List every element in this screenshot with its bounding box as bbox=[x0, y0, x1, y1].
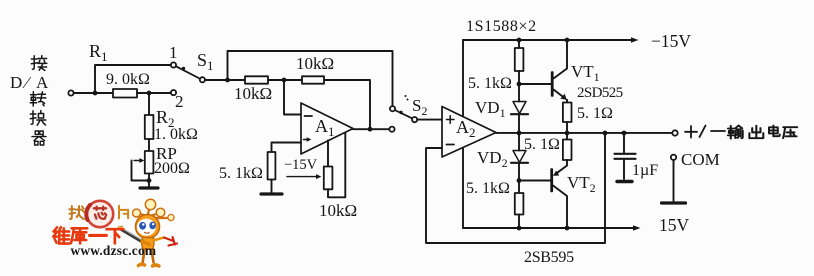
wire A2 top supply bbox=[462, 40, 464, 116]
wire COM to ground bbox=[673, 160, 675, 202]
svg-text:A: A bbox=[36, 73, 49, 92]
node: rail/5.1k lower bbox=[517, 226, 522, 231]
watermark seal 找芯片 bbox=[69, 201, 128, 227]
node: diode chain/output bbox=[517, 131, 522, 136]
svg-text:S2: S2 bbox=[412, 96, 427, 118]
op-amp A1 bbox=[301, 103, 353, 154]
label: D/A converter connection (接 D/A 转换器) bbox=[10, 56, 49, 145]
svg-text:1µF: 1µF bbox=[632, 162, 658, 179]
svg-text:5. 1kΩ: 5. 1kΩ bbox=[219, 165, 263, 182]
node: emitters/output bbox=[565, 131, 570, 136]
resistor 5.1kΩ (lower bias) bbox=[515, 193, 524, 228]
node: A1 inverting input bbox=[282, 78, 287, 83]
COM terminal bbox=[671, 155, 676, 160]
wire S2 pole to A2 bbox=[417, 119, 442, 121]
svg-text:VT2: VT2 bbox=[567, 173, 596, 195]
svg-text:10kΩ: 10kΩ bbox=[319, 201, 357, 220]
input terminal bbox=[68, 90, 73, 95]
svg-text:5. 1Ω: 5. 1Ω bbox=[577, 105, 613, 122]
wire: bypass up to contact 1 bbox=[95, 65, 171, 93]
node: rail/VT2 collector bbox=[565, 226, 570, 231]
output terminal bbox=[672, 130, 677, 135]
resistor R1 9.0k bbox=[113, 89, 149, 98]
node: rail/5.1k bbox=[517, 38, 522, 43]
svg-text:D: D bbox=[10, 73, 22, 92]
wire output line bbox=[496, 132, 672, 134]
svg-text:15V: 15V bbox=[659, 215, 690, 235]
svg-text:−15V: −15V bbox=[651, 31, 691, 51]
switch S1 contact 2 bbox=[171, 90, 176, 95]
node: R2 junction bbox=[147, 91, 152, 96]
watermark text 维库一下 bbox=[53, 227, 123, 244]
ground (COM) bbox=[662, 201, 686, 204]
switch S2 top contact bbox=[390, 106, 395, 111]
svg-text:5. 1kΩ: 5. 1kΩ bbox=[468, 75, 512, 92]
capacitor 1µF bbox=[615, 133, 636, 179]
svg-text:5. 1kΩ: 5. 1kΩ bbox=[466, 180, 510, 197]
wire input to node bbox=[74, 92, 113, 94]
transistor VT2 2SB595 bbox=[552, 160, 567, 228]
switch S2 lower contact bbox=[389, 127, 394, 132]
top rail -15V bbox=[463, 37, 639, 43]
wire A1 output bbox=[353, 128, 389, 130]
node: VT1 base junction bbox=[517, 82, 522, 87]
svg-text:VD1: VD1 bbox=[475, 98, 506, 120]
ground (RP) bbox=[140, 186, 158, 189]
wire to VT2 base bbox=[519, 180, 552, 182]
node: A1 output junction bbox=[368, 127, 373, 132]
svg-text:2: 2 bbox=[175, 92, 184, 111]
bottom rail 15V bbox=[463, 225, 641, 231]
ground (cap) bbox=[617, 180, 632, 183]
offset wiper arrow from -15V bbox=[287, 174, 321, 179]
diode VD2 bbox=[511, 133, 528, 193]
resistor 5.1kΩ (upper bias) bbox=[515, 40, 524, 102]
diode VD1 bbox=[511, 102, 528, 134]
resistor R2 1.0k bbox=[145, 93, 154, 151]
node: feedback at output bbox=[603, 131, 608, 136]
node: VT2 base junction bbox=[517, 178, 522, 183]
svg-text:5. 1Ω: 5. 1Ω bbox=[524, 136, 560, 153]
svg-text:1S1588×2: 1S1588×2 bbox=[466, 18, 537, 35]
svg-text:1. 0kΩ: 1. 0kΩ bbox=[154, 126, 198, 143]
label +/- output voltage (+∕-输出电压) bbox=[685, 126, 797, 139]
resistor 5.1kΩ (A1 +) bbox=[268, 152, 276, 193]
node: input junction bbox=[93, 91, 98, 96]
node: S1 pole junction bbox=[225, 78, 230, 83]
svg-text:VD2: VD2 bbox=[477, 148, 508, 170]
wire S1 pole to 10k bbox=[205, 79, 245, 81]
svg-text:COM: COM bbox=[681, 150, 720, 169]
node: cap/output bbox=[622, 131, 627, 136]
wire A2 bottom supply bbox=[462, 148, 464, 228]
switch S1 contact 1 bbox=[171, 62, 176, 67]
resistor 10kΩ feedback bbox=[302, 76, 370, 129]
resistor 10kΩ input bbox=[245, 76, 302, 83]
svg-text:200Ω: 200Ω bbox=[154, 160, 190, 177]
svg-text:9. 0kΩ: 9. 0kΩ bbox=[106, 71, 150, 88]
resistor 5.1Ω (VT2 emitter) bbox=[563, 133, 572, 160]
artifact dots near S2 bbox=[405, 95, 407, 97]
wire to A1 minus bbox=[284, 80, 301, 115]
resistor 5.1Ω (VT1 emitter) bbox=[563, 103, 572, 134]
svg-text:∕: ∕ bbox=[23, 73, 32, 92]
switch S1 bbox=[176, 66, 205, 82]
wire to VT1 base bbox=[519, 83, 552, 85]
node: RP wiper junction bbox=[147, 178, 152, 183]
wire A2 feedback loop bbox=[426, 133, 605, 243]
svg-text:VT1: VT1 bbox=[571, 62, 600, 84]
svg-text:2SB595: 2SB595 bbox=[524, 249, 574, 266]
potentiometer RP 200Ω bbox=[132, 151, 154, 187]
svg-text:2SD525: 2SD525 bbox=[577, 85, 623, 101]
watermark mascot bbox=[118, 199, 177, 266]
transistor VT1 2SD525 bbox=[552, 40, 567, 103]
wire: bypass S1 to S2 top bbox=[228, 51, 393, 106]
svg-text:−15V: −15V bbox=[284, 157, 318, 173]
svg-text:www.dzsc.com: www.dzsc.com bbox=[71, 243, 157, 258]
op-amp A2 bbox=[442, 107, 496, 158]
svg-text:R1: R1 bbox=[89, 41, 108, 64]
offset pot 10kΩ bbox=[324, 133, 346, 198]
ground (A1 +) bbox=[261, 192, 282, 195]
wire to contact 2 bbox=[149, 92, 171, 94]
wire A1 plus input bbox=[272, 143, 302, 153]
switch S2 bbox=[395, 110, 418, 122]
svg-text:10kΩ: 10kΩ bbox=[234, 84, 272, 103]
svg-text:S1: S1 bbox=[197, 50, 214, 73]
svg-text:1: 1 bbox=[169, 43, 178, 62]
node: rail/VT1 collector bbox=[565, 38, 570, 43]
svg-text:10kΩ: 10kΩ bbox=[296, 54, 334, 73]
